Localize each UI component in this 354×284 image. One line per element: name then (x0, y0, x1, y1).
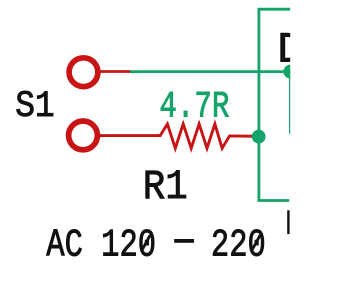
switch S1 terminal circle (top) (69, 58, 98, 87)
resistor R1 (red zigzag with leads) (100, 124, 259, 148)
svg-text:S1: S1 (15, 86, 55, 128)
svg-text:4.7R: 4.7R (159, 86, 229, 127)
switch S1 pin stub (top, red) (101, 70, 131, 73)
switch S1 terminal circle (bottom) (69, 121, 98, 150)
node: junction dot at top-right (clipped half-disc) (283, 65, 297, 79)
slash in zero of 220 (252, 235, 260, 251)
wire: bracket (vertical bus with top and bottom corners) (259, 9, 290, 200)
svg-text:AC 120 220: AC 120 220 (46, 224, 265, 268)
clipped letter bar at bottom right (287, 210, 289, 234)
wire: vertical drop from node (clipped at right) (289, 72, 292, 134)
label D (clipped letter) (277, 25, 303, 74)
dash of AC 120 - 220 (174, 239, 194, 243)
node: junction dot where R1 meets vertical wire (252, 130, 266, 144)
slash in zero of 120 (142, 235, 150, 251)
svg-text:R1: R1 (143, 163, 188, 211)
wire: top net (green horizontal) (130, 70, 290, 73)
